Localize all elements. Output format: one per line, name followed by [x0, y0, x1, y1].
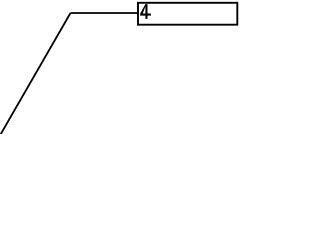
label box — [138, 3, 237, 25]
label text 4 — [140, 4, 151, 19]
wire (horizontal segment) — [71, 12, 139, 14]
wire (diagonal segment) — [1, 13, 71, 135]
